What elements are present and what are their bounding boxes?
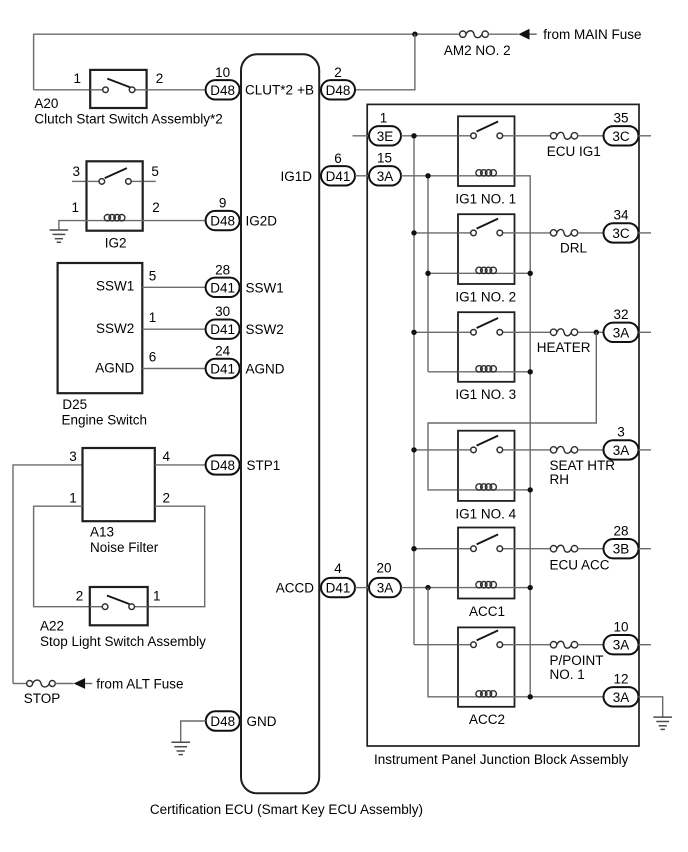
svg-text:Noise Filter: Noise Filter (90, 540, 159, 555)
ECU pin label STP1 (247, 458, 281, 473)
svg-text:1: 1 (380, 111, 388, 126)
svg-text:A13: A13 (90, 525, 114, 540)
engine switch D25 box (58, 263, 143, 393)
wire A13 pin1 loop left (34, 506, 90, 607)
svg-text:+B: +B (297, 83, 314, 98)
label IG1 NO. 3 (455, 387, 516, 402)
connector D48 STP1 (206, 455, 240, 474)
svg-text:ECU IG1: ECU IG1 (547, 144, 601, 159)
connector D48 pin 9 (206, 211, 240, 230)
svg-text:IG2D: IG2D (246, 214, 278, 229)
wire STOP row to fuse (13, 683, 27, 685)
wire 3E to relay IG1 NO.1 (401, 135, 458, 137)
svg-text:10: 10 (613, 619, 628, 634)
svg-text:NO. 1: NO. 1 (550, 667, 585, 682)
wire stub right of 3A-3 (639, 449, 652, 451)
junction dot right vertical relay3 coil (528, 369, 533, 374)
wire STOP fuse to arrow (55, 683, 73, 685)
wire fuse to 3C-35 (578, 135, 604, 137)
ECU pin label AGND (246, 362, 285, 377)
svg-text:3: 3 (69, 449, 77, 464)
pin number 24 (215, 344, 231, 359)
svg-text:from MAIN Fuse: from MAIN Fuse (543, 27, 641, 42)
connector 3A pin 32 (604, 323, 639, 342)
label Stop Light Switch Assembly (40, 634, 206, 649)
connector 3C pin 34 (604, 223, 639, 242)
junction dot right vertical ACC2 coil (528, 694, 533, 699)
wire relay4 to SEAT HTR fuse (515, 449, 551, 451)
junction dot right vertical relay4 coil (528, 487, 533, 492)
label IG1 NO. 4 (455, 506, 516, 521)
svg-text:2: 2 (156, 71, 164, 86)
wire AGND to D41 pin 24 (142, 368, 205, 370)
svg-text:4: 4 (163, 449, 171, 464)
pin 3 of A13 (69, 449, 77, 464)
svg-text:D41: D41 (210, 362, 235, 377)
pin 1 of D25 (149, 310, 157, 325)
fuse HEATER (550, 329, 577, 336)
fuse STOP (27, 680, 56, 687)
pin 1 of A22 (153, 589, 161, 604)
pin number 9 (219, 196, 227, 211)
coil of IG2 (104, 215, 125, 221)
pin 3 of IG2 (72, 164, 80, 179)
fuse P/POINT NO. 1 (550, 641, 577, 648)
svg-text:15: 15 (377, 151, 392, 166)
wire A13 pin4 to D48 STP1 (155, 464, 206, 466)
svg-text:ACC1: ACC1 (469, 604, 505, 619)
fuse AM2 NO. 2 (460, 31, 489, 38)
wire DRL fuse to 3C-34 (578, 232, 604, 234)
wire stub right of 3C-34 (639, 232, 652, 234)
label Engine Switch (62, 412, 148, 427)
wire stub left of 3E (353, 135, 370, 137)
connector 3A pin 3 (604, 440, 639, 459)
svg-text:AM2 NO. 2: AM2 NO. 2 (444, 43, 511, 58)
pin 5 of D25 (149, 268, 157, 283)
label SSW1 inside D25 (96, 279, 134, 294)
ECU pin label SSW2 (246, 322, 284, 337)
svg-text:3A: 3A (613, 325, 630, 340)
pin number 3 (617, 425, 625, 440)
ECU pin label SSW1 (246, 280, 284, 295)
svg-text:12: 12 (613, 672, 628, 687)
pin number 10 (215, 65, 230, 80)
svg-text:A22: A22 (40, 619, 64, 634)
wire ACC1 coil right (515, 587, 531, 589)
wire relay2 coil right (515, 272, 531, 274)
connector 3A pin 12 (604, 687, 639, 706)
svg-text:3B: 3B (613, 542, 630, 557)
ECU pin label +B (297, 83, 314, 98)
wire 3A-15 to relay coil (401, 175, 458, 177)
wire stub right of 3A-32 (639, 331, 652, 333)
svg-text:35: 35 (613, 111, 628, 126)
certification ECU box (241, 54, 319, 793)
ground at IG2 (50, 230, 69, 242)
wire bus2 to relay3 coil (428, 371, 458, 373)
junction dot right vertical relay2 coil (528, 271, 533, 276)
svg-text:28: 28 (215, 262, 230, 277)
svg-text:5: 5 (151, 164, 159, 179)
svg-text:30: 30 (215, 304, 230, 319)
wire stub right of 3C-35 (639, 135, 652, 137)
wire A13 pin2 loop right (148, 506, 205, 607)
svg-text:20: 20 (376, 560, 391, 575)
svg-text:1: 1 (71, 200, 79, 215)
connector D48 pin 2 +B (321, 80, 355, 99)
label from MAIN Fuse (543, 27, 641, 42)
connector 3A pin 10 (604, 635, 639, 654)
svg-text:3C: 3C (612, 129, 630, 144)
junction dot bus2 relay2 coil (425, 271, 430, 276)
label SSW2 inside D25 (96, 321, 134, 336)
svg-text:1: 1 (149, 310, 157, 325)
pin number 28 of 3B (613, 523, 628, 538)
connector 3A pin 15 (369, 166, 401, 185)
label A22 (40, 619, 64, 634)
wire ACC1 to ECU ACC fuse (515, 548, 551, 550)
label Clutch Start Switch Assembly*2 (34, 112, 222, 127)
wire relay4 coil right (515, 489, 531, 491)
svg-text:3: 3 (72, 164, 80, 179)
pin number 6 (334, 151, 342, 166)
connector D41 pin 4 ACCD (321, 578, 355, 597)
pin 2 of A13 (163, 490, 171, 505)
svg-text:STP1: STP1 (247, 458, 281, 473)
svg-text:3A: 3A (613, 638, 630, 653)
svg-text:Stop Light Switch Assembly: Stop Light Switch Assembly (40, 634, 206, 649)
svg-text:6: 6 (149, 350, 157, 365)
pin 2 of A22 (76, 589, 84, 604)
svg-text:3A: 3A (377, 581, 394, 596)
pin number 30 (215, 304, 230, 319)
connector D41 pin 6 IG1D (321, 166, 355, 185)
label HEATER (537, 340, 591, 355)
svg-text:3E: 3E (377, 129, 394, 144)
wire GND to ground (181, 721, 206, 742)
junction dot bus1 relay2 (411, 230, 416, 235)
label ACC1 (469, 604, 505, 619)
label ACC2 (469, 712, 505, 727)
wire D41-4 to 3A-20 (355, 587, 369, 589)
svg-text:2: 2 (76, 589, 84, 604)
svg-text:Certification ECU (Smart Key E: Certification ECU (Smart Key ECU Assembl… (150, 802, 423, 817)
wire AM2 fuse to arrow (488, 33, 518, 35)
wire ACC2 coil right to 3A-12 (515, 696, 604, 698)
svg-text:DRL: DRL (560, 240, 587, 255)
connector D48 GND (206, 711, 240, 730)
junction dot bus1 relay3 (411, 330, 416, 335)
svg-text:Engine Switch: Engine Switch (62, 412, 148, 427)
svg-text:Instrument Panel Junction Bloc: Instrument Panel Junction Block Assembly (374, 752, 629, 767)
wire IG2 pin2 to D48 pin 9 (143, 220, 206, 222)
connector 3C pin 35 (604, 126, 639, 145)
junction dot ACC bus (425, 585, 430, 590)
wire ACC2 to P/POINT fuse (515, 644, 551, 646)
wire IG2 pin5 stub (143, 180, 156, 182)
svg-text:IG1 NO. 3: IG1 NO. 3 (455, 387, 516, 402)
svg-text:SEAT HTR: SEAT HTR (550, 458, 616, 473)
pin 2 of IG2 (152, 200, 160, 215)
svg-text:3A: 3A (377, 169, 394, 184)
label SEAT HTR (550, 458, 616, 473)
pin 5 of IG2 (151, 164, 159, 179)
wire P/POINT fuse to 3A-10 (578, 644, 604, 646)
ground at 3A-12 (653, 717, 672, 729)
svg-text:GND: GND (247, 714, 277, 729)
svg-text:3A: 3A (613, 690, 630, 705)
wire HEATER branch to relay4 coil (428, 332, 596, 490)
pin number 10 of 3A (613, 619, 628, 634)
svg-text:ECU ACC: ECU ACC (550, 557, 610, 572)
relay IG1 NO. 2 (458, 214, 515, 284)
svg-text:4: 4 (334, 561, 342, 576)
arrow from ALT Fuse (74, 678, 93, 689)
ground at GND pin (171, 742, 190, 754)
svg-text:CLUT*2: CLUT*2 (245, 83, 293, 98)
junction dot bus1 ACC1 (411, 546, 416, 551)
pin 4 of A13 (163, 449, 171, 464)
ECU pin label IG1D (280, 169, 312, 184)
junction dot bus1 relay4 (411, 447, 416, 452)
wire D41-6 to 3A-15 (355, 175, 369, 177)
wire bus2 to relay2 coil (428, 272, 458, 274)
pin number 34 (613, 208, 629, 223)
svg-text:IG1D: IG1D (280, 169, 312, 184)
label Instrument Panel Junction Block Assembly (374, 752, 629, 767)
wire IG2 pin1 to ground (59, 221, 87, 230)
connector D41 pin 30 (206, 320, 240, 339)
wire ECU ACC fuse to 3B-28 (578, 548, 604, 550)
pin 1 of A20 (73, 71, 81, 86)
pin number 35 (613, 111, 628, 126)
label STOP (24, 691, 61, 706)
switch A20 (90, 70, 146, 108)
label P/POINT (550, 653, 604, 668)
svg-text:Clutch Start Switch Assembly*2: Clutch Start Switch Assembly*2 (34, 112, 222, 127)
connector D48 pin 10 (206, 80, 240, 99)
junction dot HEATER branch (594, 330, 599, 335)
svg-text:SSW2: SSW2 (96, 321, 134, 336)
svg-text:2: 2 (152, 200, 160, 215)
svg-text:D48: D48 (210, 214, 235, 229)
junction dot top +B branch (412, 32, 417, 37)
svg-text:2: 2 (163, 490, 171, 505)
wire bus1 switch feed (413, 136, 415, 645)
svg-text:9: 9 (219, 196, 227, 211)
label DRL (560, 240, 587, 255)
label A20 (34, 96, 58, 111)
pin number 20 (376, 560, 391, 575)
svg-text:SSW1: SSW1 (246, 280, 284, 295)
fuse DRL (550, 229, 577, 236)
svg-text:D48: D48 (210, 714, 235, 729)
wire IG2 pin3 stub (72, 180, 87, 182)
wire bus1 to ACC1 (414, 548, 458, 550)
wire +B drop from top junction (355, 34, 415, 90)
svg-text:5: 5 (149, 268, 157, 283)
ECU pin label IG2D (246, 214, 278, 229)
svg-text:10: 10 (215, 65, 230, 80)
ECU pin label ACCD (276, 581, 315, 596)
svg-text:AGND: AGND (95, 361, 134, 376)
wire bus1 to relay2 (414, 232, 458, 234)
wire A20 row left (34, 89, 91, 91)
label Certification ECU (150, 802, 423, 817)
svg-text:34: 34 (613, 208, 629, 223)
label IG1 NO. 1 (455, 191, 516, 206)
svg-text:RH: RH (550, 472, 570, 487)
label ECU IG1 (547, 144, 601, 159)
wire 3A-20 to ACC1 coil (401, 587, 458, 589)
wire bus1 corner to ACC2 switch (414, 644, 458, 646)
junction dot bus2 coil row (425, 173, 430, 178)
svg-text:A20: A20 (34, 96, 58, 111)
ECU pin label GND (247, 714, 277, 729)
label AGND inside D25 (95, 361, 134, 376)
pin 1 of IG2 (71, 200, 79, 215)
label ECU ACC (550, 557, 610, 572)
wire A20 to D48 pin 10 (147, 89, 206, 91)
wire A13 pin3 left down to STOP row (13, 465, 83, 684)
svg-text:ACCD: ACCD (276, 581, 315, 596)
wire SEAT fuse to 3A-3 (578, 449, 604, 451)
relay IG1 NO. 3 (458, 312, 515, 382)
label A13 (90, 525, 114, 540)
fuse ECU ACC (550, 545, 577, 552)
fuse ECU IG1 (550, 132, 577, 139)
svg-text:D48: D48 (326, 83, 351, 98)
svg-text:SSW1: SSW1 (96, 279, 134, 294)
svg-text:D41: D41 (210, 322, 235, 337)
wire HEATER fuse to 3A-32 (578, 331, 604, 333)
svg-text:SSW2: SSW2 (246, 322, 284, 337)
wire relay2 to DRL fuse (515, 232, 551, 234)
wire bus1 to relay4 (414, 449, 458, 451)
ECU pin label CLUT*2 (245, 83, 293, 98)
svg-text:STOP: STOP (24, 691, 61, 706)
svg-text:28: 28 (613, 523, 628, 538)
svg-text:1: 1 (153, 589, 161, 604)
pin number 2 (334, 65, 342, 80)
wire ACC bus down to ACC2 coil (428, 588, 458, 697)
pin number 15 (377, 151, 392, 166)
relay IG1 NO. 4 (458, 431, 515, 501)
svg-text:2: 2 (334, 65, 342, 80)
label D25 (62, 397, 87, 412)
connector 3A pin 20 (369, 578, 401, 597)
svg-text:IG2: IG2 (105, 236, 127, 251)
relay ACC1 (458, 528, 515, 599)
pin number 12 (613, 672, 628, 687)
pin 2 of A20 (156, 71, 164, 86)
pin number 32 (613, 307, 628, 322)
svg-text:P/POINT: P/POINT (550, 653, 604, 668)
pin 6 of D25 (149, 350, 157, 365)
connector D41 pin 28 (206, 278, 240, 297)
svg-text:HEATER: HEATER (537, 340, 591, 355)
junction dot bus1 3E row (411, 133, 416, 138)
svg-text:3: 3 (617, 425, 625, 440)
svg-text:D48: D48 (210, 83, 235, 98)
pin number 1 of 3E (380, 111, 388, 126)
relay ACC2 (458, 627, 515, 706)
connector D41 pin 24 (206, 359, 240, 378)
pin number 4 (334, 561, 342, 576)
svg-text:D41: D41 (326, 169, 351, 184)
svg-text:IG1 NO. 4: IG1 NO. 4 (455, 506, 516, 521)
junction dot right vertical ACC1 coil (528, 585, 533, 590)
wire stub right of 3A-10 (639, 644, 652, 646)
fuse SEAT HTR RH (550, 446, 577, 453)
wire bus2 coil feed (427, 176, 429, 372)
pin 1 of A13 (69, 490, 77, 505)
noise filter A13 box (83, 448, 155, 521)
wire from A20 up and across top to junction (34, 34, 415, 90)
svg-text:AGND: AGND (246, 362, 285, 377)
connector 3B pin 28 (604, 539, 639, 558)
svg-text:3C: 3C (612, 226, 630, 241)
svg-text:24: 24 (215, 344, 231, 359)
svg-text:6: 6 (334, 151, 342, 166)
wire relay1 coil right to vertical (515, 176, 531, 697)
label IG1 NO. 2 (455, 289, 516, 304)
wire SSW1 to D41 pin 28 (142, 286, 205, 288)
connector 3E pin 1 (369, 126, 401, 145)
pin number 28 (215, 262, 230, 277)
arrow from MAIN Fuse (518, 29, 536, 40)
wire junction to AM2 fuse (415, 33, 460, 35)
label IG2 (105, 236, 127, 251)
wire relay3 coil right (515, 371, 531, 373)
label from ALT Fuse (96, 676, 183, 691)
wire 3A-12 to ground (639, 697, 663, 717)
svg-text:1: 1 (69, 490, 77, 505)
label Noise Filter (90, 540, 159, 555)
svg-text:IG1 NO. 2: IG1 NO. 2 (455, 289, 516, 304)
svg-text:D48: D48 (210, 458, 235, 473)
label AM2 NO. 2 (444, 43, 511, 58)
svg-text:3A: 3A (613, 443, 630, 458)
wire bus1 to relay3 (414, 331, 458, 333)
label NO. 1 (550, 667, 585, 682)
svg-text:ACC2: ACC2 (469, 712, 505, 727)
instrument panel junction block box (367, 104, 639, 746)
relay IG2 (87, 161, 143, 230)
switch A22 (90, 587, 148, 625)
relay IG1 NO. 1 (458, 116, 515, 186)
svg-text:32: 32 (613, 307, 628, 322)
svg-text:from ALT Fuse: from ALT Fuse (96, 676, 183, 691)
svg-text:IG1 NO. 1: IG1 NO. 1 (455, 191, 516, 206)
wire stub right of 3B-28 (639, 548, 652, 550)
svg-text:1: 1 (73, 71, 81, 86)
svg-text:D25: D25 (62, 397, 87, 412)
wire relay3 to HEATER fuse (515, 331, 551, 333)
label RH (550, 472, 570, 487)
wire relay1 to ECU IG1 fuse (515, 135, 551, 137)
svg-text:D41: D41 (326, 581, 351, 596)
wire SSW2 to D41 pin 30 (142, 328, 205, 330)
svg-text:D41: D41 (210, 280, 235, 295)
